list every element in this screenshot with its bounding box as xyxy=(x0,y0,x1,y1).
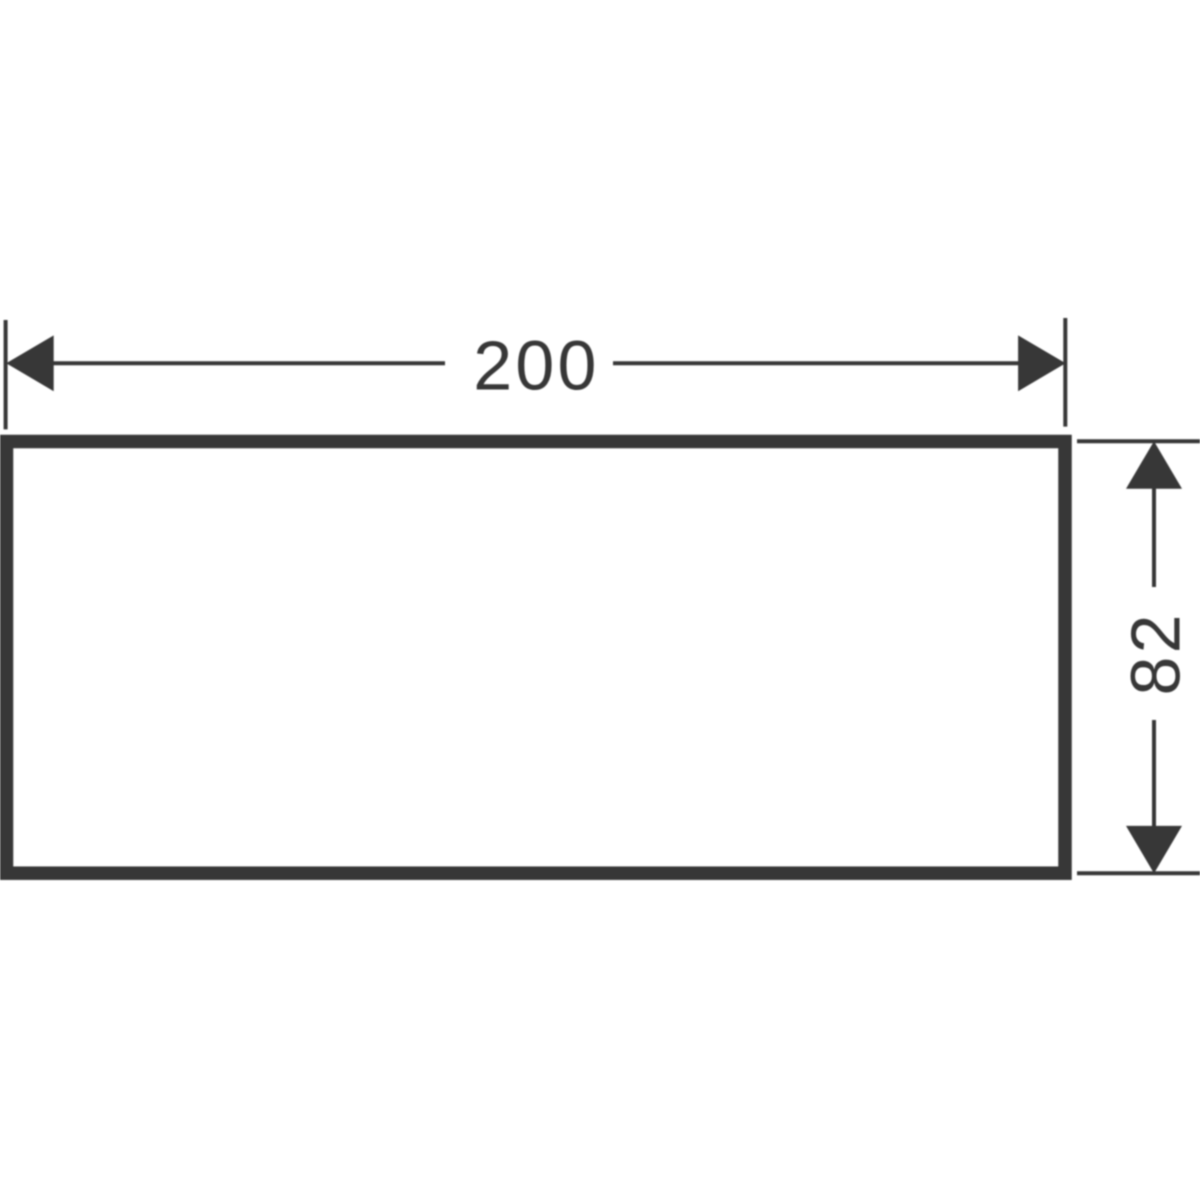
svg-text:82: 82 xyxy=(1117,611,1195,695)
svg-text:200: 200 xyxy=(473,327,599,405)
